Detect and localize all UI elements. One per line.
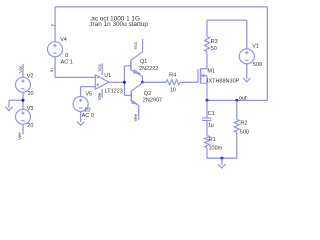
svg-text:U1: U1 — [104, 73, 111, 79]
wire R3 top — [206, 20, 208, 36]
wire Vcc flag to V2 — [22, 64, 24, 77]
voltage source V5 — [73, 97, 88, 112]
transistor Q2 2N2907 — [131, 82, 142, 120]
wire V5 bottom — [80, 112, 82, 123]
svg-text:AC 1: AC 1 — [61, 60, 73, 66]
junction emitters — [141, 81, 144, 84]
svg-text:10: 10 — [170, 88, 176, 94]
junction R2 top — [235, 99, 238, 102]
svg-text:Vcc: Vcc — [18, 65, 23, 73]
wire base bus — [123, 66, 125, 96]
wire op-amp output — [109, 81, 125, 83]
wire to C1 — [206, 100, 208, 118]
svg-text:Vcc: Vcc — [97, 63, 102, 71]
svg-text:100m: 100m — [209, 146, 223, 152]
svg-text:50: 50 — [211, 46, 217, 52]
svg-text:Vee: Vee — [133, 113, 138, 121]
wire Q1 base lead — [124, 65, 130, 67]
svg-text:2N2222: 2N2222 — [139, 66, 158, 72]
wire V4 top — [54, 7, 56, 42]
resistor R1 — [205, 135, 210, 147]
capacitor C1 — [202, 118, 212, 121]
wire to inverting input — [55, 76, 95, 78]
wire V5 top — [80, 87, 82, 97]
wire C1 to R1 — [206, 121, 208, 136]
svg-text:V3: V3 — [27, 106, 34, 112]
svg-text:Vee: Vee — [17, 132, 22, 140]
wire emitters to R4 — [143, 81, 167, 83]
svg-text:1µ: 1µ — [208, 122, 215, 128]
svg-text:0: 0 — [65, 53, 68, 59]
svg-text:LT1223: LT1223 — [105, 89, 123, 95]
resistor R2 — [234, 119, 239, 132]
junction bottom ground — [220, 157, 223, 160]
wire Q2 base lead — [124, 94, 131, 96]
wire ground stub — [221, 158, 223, 165]
wire out to R2 — [236, 100, 238, 119]
voltage source V4 — [48, 42, 63, 57]
svg-text:V4: V4 — [60, 37, 67, 43]
wire V3 bottom — [22, 124, 24, 134]
junction output to bases — [123, 81, 126, 84]
wire to non-inverting input — [81, 86, 96, 88]
ground — [243, 78, 251, 82]
wire output rail — [207, 99, 267, 101]
ground — [218, 164, 226, 168]
voltage source V1 — [239, 49, 254, 64]
svg-text:;tran 1n 300u startup: ;tran 1n 300u startup — [89, 21, 148, 28]
wire V1 top — [246, 20, 248, 49]
svg-text:500: 500 — [240, 130, 249, 136]
svg-text:AC 0: AC 0 — [82, 113, 94, 119]
svg-text:20: 20 — [28, 91, 34, 97]
wire op-amp V- supply — [101, 89, 103, 98]
svg-text:R2: R2 — [240, 121, 247, 127]
wire R1 bottom — [206, 148, 208, 159]
svg-text:out: out — [239, 95, 247, 101]
svg-text:V1: V1 — [252, 44, 259, 50]
ground — [5, 107, 13, 111]
svg-text:IXTH88N30P: IXTH88N30P — [207, 78, 240, 84]
wire R4 to gate — [180, 81, 198, 83]
svg-text:Q2: Q2 — [144, 91, 151, 97]
resistor R4 — [166, 80, 180, 85]
svg-text:in: in — [49, 68, 54, 72]
svg-text:R1: R1 — [209, 137, 216, 143]
svg-text:Vcc: Vcc — [133, 41, 138, 49]
wire supply rail — [207, 19, 247, 21]
wire R2 bottom — [236, 132, 238, 158]
wire bottom — [207, 157, 237, 159]
wire V1 bottom — [246, 64, 248, 79]
voltage source V2 — [16, 77, 31, 92]
svg-text:M1: M1 — [207, 69, 215, 75]
wire V4 bottom — [54, 57, 56, 78]
svg-text:C1: C1 — [208, 111, 215, 117]
svg-text:2N2907: 2N2907 — [143, 98, 162, 104]
svg-text:20: 20 — [27, 123, 33, 129]
transistor Q1 2N2222 — [131, 39, 143, 83]
op-amp U1 — [95, 75, 109, 89]
wire top feedback rail — [55, 6, 267, 8]
wire right rail — [266, 7, 268, 101]
nmos M1 IXTH88N30P — [198, 52, 207, 101]
junction M1 source — [206, 99, 209, 102]
svg-text:R4: R4 — [169, 73, 176, 79]
svg-text:V5: V5 — [85, 92, 92, 98]
ground — [77, 122, 85, 126]
svg-text:Vee: Vee — [97, 92, 102, 100]
junction V2-V3-ground — [22, 99, 25, 102]
wire op-amp V+ supply — [101, 63, 103, 75]
wire ground stub — [8, 100, 10, 107]
wire to ground — [9, 99, 23, 101]
resistor R3 — [205, 37, 210, 52]
svg-text:V2: V2 — [27, 73, 34, 79]
svg-text:500: 500 — [253, 62, 262, 68]
svg-text:Q1: Q1 — [140, 59, 147, 65]
wire V2 to V3 — [22, 92, 24, 109]
svg-text:R3: R3 — [211, 39, 218, 45]
voltage source V3 — [16, 109, 31, 124]
